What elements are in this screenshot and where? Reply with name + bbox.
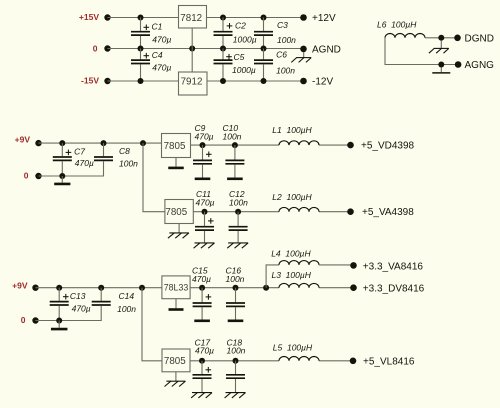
svg-text:100n: 100n (226, 274, 245, 284)
junction C13 top (56, 285, 62, 291)
node -15V supply terminal (81, 75, 111, 85)
junction C9 top (200, 142, 206, 148)
wire L2 to output node (319, 211, 351, 213)
capacitor C10 100n (223, 123, 245, 178)
junction C3-C6 (261, 46, 267, 52)
svg-text:L2 100µH: L2 100µH (272, 192, 312, 202)
ground below 7805 U4 (signal gnd) (165, 372, 186, 387)
wire L4 to output (319, 264, 354, 266)
inductor L5 100µH (273, 343, 319, 361)
node +5_VL8416 (350, 357, 415, 368)
ground AGND (signal gnd) (291, 52, 311, 62)
svg-text:470µ: 470µ (152, 34, 171, 44)
ground DGND (signal gnd) (429, 41, 449, 53)
svg-text:+5_VL8416: +5_VL8416 (363, 357, 415, 368)
node DGND (454, 33, 494, 44)
regulator 7812 (179, 6, 207, 29)
svg-text:100n: 100n (119, 159, 138, 169)
svg-text:L1 100µH: L1 100µH (272, 125, 312, 135)
junction branch to second 7805 (140, 140, 146, 146)
capacitor C4 470µ (131, 49, 171, 82)
svg-text:7805: 7805 (164, 356, 186, 367)
wire +15V rail (108, 17, 179, 19)
ground below C12 (signal gnd) (227, 242, 248, 248)
node 0V terminal (lower) (21, 315, 39, 325)
svg-text:7805: 7805 (164, 141, 186, 152)
node +9V supply terminal (upper) (15, 135, 42, 147)
ground below 7805 U2 (signal gnd) (168, 224, 189, 239)
ground below C16 (earth bar) (228, 319, 244, 322)
node -12V (300, 77, 333, 88)
capacitor C3 100n (254, 18, 296, 49)
wire L6 left leg to AGNG (385, 38, 458, 65)
capacitor C2 1000µ (214, 18, 257, 49)
wire branch to third 7805 (142, 288, 162, 361)
capacitor C16 100n (226, 265, 246, 319)
svg-text:-15V: -15V (81, 75, 99, 85)
svg-text:C3: C3 (277, 20, 288, 30)
ground below 78L33 (earth bar) (169, 299, 184, 310)
capacitor C7 470µ (53, 143, 94, 176)
node AGNG (455, 60, 494, 71)
svg-text:0: 0 (21, 315, 26, 325)
regulator 7805 (U1) (162, 134, 191, 158)
wire 78L33 output (190, 287, 279, 289)
node +9V supply terminal (lower) (12, 281, 39, 291)
svg-text:470µ: 470µ (195, 132, 214, 142)
ground below C17 (signal gnd) (191, 392, 212, 398)
svg-text:L3 100µH: L3 100µH (272, 270, 312, 280)
junction C13 bottom (56, 318, 62, 324)
capacitor C13 470µ (50, 288, 91, 321)
wire 0V (lower) (36, 320, 60, 322)
wire 0V rail (108, 48, 304, 50)
svg-text:C5: C5 (234, 52, 245, 62)
svg-text:+9V: +9V (12, 281, 28, 291)
junction C17 top (199, 358, 205, 364)
capacitor C17 470µ (193, 337, 215, 391)
junction C18 top (233, 358, 239, 364)
svg-text:L5 100µH: L5 100µH (273, 343, 313, 353)
node +3.3_VA8416 (350, 261, 423, 272)
wire L5 to output node (319, 360, 353, 362)
inductor L2 100µH (272, 192, 319, 212)
wire -12V rail (207, 80, 304, 82)
wire 7805 U2 output (193, 211, 279, 213)
svg-text:78L33: 78L33 (164, 283, 189, 293)
svg-text:L4 100µH: L4 100µH (271, 248, 311, 258)
svg-text:C1: C1 (152, 21, 163, 31)
wire 7812-7912 common stub (191, 28, 193, 72)
capacitor C11 470µ (195, 189, 215, 242)
svg-text:-12V: -12V (312, 77, 333, 88)
wire -15V rail (108, 80, 179, 82)
svg-text:+9V: +9V (15, 135, 31, 145)
node +5_VA4398 (347, 207, 414, 218)
capacitor C15 470µ (192, 265, 212, 319)
node AGND (300, 44, 341, 55)
svg-text:C2: C2 (235, 21, 246, 31)
node +5_VD4398 (347, 141, 414, 152)
junction C7 bottom (59, 173, 65, 179)
junction C2-C5 (220, 46, 226, 52)
svg-text:7912: 7912 (181, 77, 203, 88)
capacitor C9 470µ (193, 123, 214, 178)
junction C4 bottom (138, 78, 144, 84)
wire +12V rail (207, 17, 304, 19)
capacitor C1 470µ (131, 18, 171, 49)
capacitor C12 100n (229, 189, 249, 242)
svg-text:0: 0 (93, 44, 98, 54)
svg-text:+3.3_DV8416: +3.3_DV8416 (363, 283, 425, 294)
svg-text:7812: 7812 (180, 13, 202, 24)
svg-text:100n: 100n (227, 345, 246, 355)
junction C8 top (101, 140, 107, 146)
wire branch up to L4 (266, 265, 279, 288)
inductor L3 100µH (272, 270, 320, 288)
svg-text:470µ: 470µ (75, 158, 94, 168)
junction C1-C4 (138, 46, 144, 52)
svg-text:0: 0 (24, 170, 29, 180)
wire +9V rail (upper) (39, 142, 162, 144)
node +12V (300, 13, 336, 24)
wire +9V rail (lower) (36, 287, 162, 289)
regulator 7912 (179, 72, 208, 95)
svg-text:470µ: 470µ (72, 304, 91, 314)
svg-text:AGNG: AGNG (465, 60, 495, 71)
junction regulator common (189, 46, 195, 52)
svg-text:C6: C6 (276, 50, 287, 60)
regulator 7805 (U2) (165, 200, 193, 224)
wire 7805 U4 output (190, 360, 279, 362)
junction C7 top (59, 140, 65, 146)
svg-text:L6 100µH: L6 100µH (377, 19, 417, 29)
svg-text:470µ: 470µ (196, 197, 215, 207)
ground AGNG (earth bar) (432, 68, 450, 73)
svg-text:+15V: +15V (79, 12, 99, 22)
ground below C7 (earth bar) (54, 176, 70, 184)
node 0V terminal (upper) (24, 170, 42, 180)
svg-text:1000µ: 1000µ (233, 35, 257, 45)
wire branch to second 7805 (143, 143, 165, 212)
junction C11 top (202, 209, 208, 215)
wire 0V (upper) (39, 175, 63, 177)
ground below C9 (earth bar) (195, 178, 211, 181)
svg-text:DGND: DGND (465, 33, 494, 44)
junction C1 top (138, 15, 144, 21)
capacitor C8 100n (62, 143, 138, 176)
junction C10 top (232, 142, 238, 148)
svg-text:C7: C7 (74, 146, 85, 156)
ground below C10 (earth bar) (227, 178, 243, 181)
inductor L4 100µH (271, 248, 319, 265)
svg-text:C4: C4 (152, 50, 163, 60)
wire L6 to DGND (425, 37, 458, 39)
svg-text:100n: 100n (117, 304, 136, 314)
wire 7805 U1 output (191, 144, 280, 146)
svg-text:C14: C14 (119, 291, 135, 301)
wire L1 to output node (319, 144, 351, 146)
capacitor C6 100n (254, 49, 295, 82)
svg-text:C8: C8 (119, 146, 130, 156)
svg-text:1000µ: 1000µ (232, 65, 256, 75)
junction C3 top (261, 15, 267, 21)
regulator 7805 (U4) (162, 349, 190, 372)
junction C6 bottom (261, 78, 267, 84)
svg-text:100n: 100n (223, 132, 242, 142)
junction AGNG ground tap (438, 62, 444, 68)
ground below C18 (signal gnd) (225, 392, 246, 398)
svg-text:+12V: +12V (312, 13, 336, 24)
svg-text:100n: 100n (277, 35, 296, 45)
regulator 78L33 (162, 276, 190, 299)
svg-text:+3.3_VA8416: +3.3_VA8416 (363, 261, 424, 272)
ground below C13 (earth bar) (51, 321, 67, 330)
capacitor C5 1000µ (214, 49, 256, 82)
svg-text:C13: C13 (70, 291, 86, 301)
junction C2 top (220, 15, 226, 21)
svg-text:470µ: 470µ (152, 63, 171, 73)
svg-text:+5_VA4398: +5_VA4398 (362, 207, 414, 218)
junction L4 branch (263, 285, 269, 291)
wire L3 to output node (319, 287, 354, 289)
svg-text:+5_VD4398: +5_VD4398 (361, 141, 415, 152)
junction C12 top (235, 209, 241, 215)
svg-text:470µ: 470µ (192, 274, 211, 284)
ground below C15 (earth bar) (194, 319, 210, 322)
junction C16 top (233, 285, 239, 291)
junction branch to third 7805 (139, 285, 145, 291)
svg-text:7805: 7805 (165, 207, 187, 218)
ground below 7805 U1 (earth bar) (168, 158, 184, 168)
ground below C11 (signal gnd) (194, 242, 215, 248)
node +3.3_DV8416 (350, 283, 424, 294)
junction C5 bottom (220, 78, 226, 84)
svg-text:AGND: AGND (312, 44, 341, 55)
inductor L6 100µH (377, 19, 425, 38)
svg-text:470µ: 470µ (195, 345, 214, 355)
node +15V supply terminal (79, 12, 111, 22)
inductor L1 100µH (272, 125, 319, 145)
junction C14 top (98, 285, 104, 291)
junction C15 top (199, 285, 205, 291)
capacitor C14 100n (59, 288, 136, 321)
capacitor C18 100n (226, 337, 246, 391)
node 0V supply terminal (93, 44, 111, 54)
svg-text:100n: 100n (276, 65, 295, 75)
svg-text:100n: 100n (229, 197, 248, 207)
junction DGND ground tap (438, 35, 444, 41)
